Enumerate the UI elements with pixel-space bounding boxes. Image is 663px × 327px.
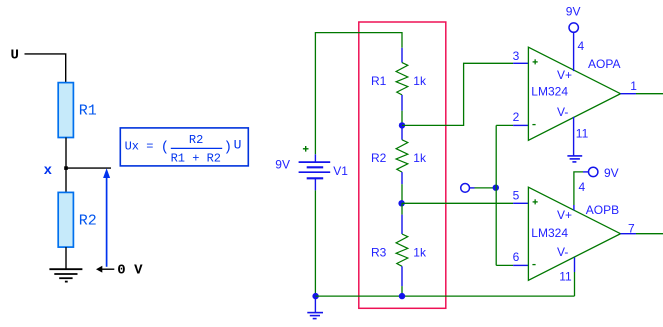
supply terminal 9V (AOPA) (569, 23, 578, 32)
svg-text:x: x (44, 163, 53, 179)
ground (battery) (307, 296, 323, 319)
svg-text:R2: R2 (79, 213, 97, 230)
minus sign input (532, 264, 535, 266)
wire to pin 6 (496, 264, 513, 266)
svg-text:7: 7 (628, 221, 635, 235)
svg-text:R1: R1 (371, 74, 387, 88)
svg-text:R1: R1 (79, 103, 97, 120)
node U label (11, 48, 19, 64)
junction R3 bottom (399, 293, 405, 299)
svg-text:1k: 1k (413, 246, 427, 260)
svg-text:9V: 9V (604, 166, 619, 180)
0 V reference arrow (96, 262, 143, 278)
svg-text:U: U (11, 48, 19, 64)
svg-text:9V: 9V (275, 157, 290, 171)
ground (earth) left (49, 269, 82, 281)
svg-text:V1: V1 (333, 164, 348, 178)
svg-text:3: 3 (513, 49, 520, 63)
wire junction R1/R2 to pin 3 (402, 63, 513, 125)
input terminal (open circle) (461, 184, 470, 193)
resistor R2 (1k) (371, 125, 427, 203)
svg-text:V-: V- (557, 105, 568, 119)
svg-text:5: 5 (513, 189, 520, 203)
svg-text:V+: V+ (557, 208, 572, 222)
svg-text:1k: 1k (413, 151, 427, 165)
wire from node x to the right (66, 167, 111, 169)
output pin 7 (621, 233, 637, 235)
wire R1 bottom to R2 top (65, 138, 67, 193)
svg-text:1: 1 (630, 79, 637, 93)
plus sign input (533, 59, 538, 64)
node x (64, 166, 68, 170)
svg-text:R2: R2 (371, 151, 387, 165)
svg-text:AOPB: AOPB (586, 203, 619, 217)
svg-text:R2: R2 (189, 133, 203, 147)
junction R2/R3 (398, 200, 404, 206)
minus sign input (532, 124, 535, 126)
svg-text:Ux =: Ux = (125, 139, 154, 153)
svg-text:6: 6 (513, 250, 520, 264)
wire junction R2/R3 to pin 5 (402, 202, 513, 204)
svg-text:2: 2 (513, 110, 520, 124)
wire U to R1 top (25, 54, 66, 83)
node pin2/pin6 tie (493, 185, 499, 191)
svg-text:R1 + R2: R1 + R2 (171, 151, 221, 165)
svg-text:11: 11 (576, 126, 589, 140)
selection box (pink) (359, 22, 446, 308)
svg-text:4: 4 (579, 180, 586, 194)
V+ pin 4 lead up to 9V terminal (573, 205, 575, 210)
svg-text:LM324: LM324 (531, 85, 568, 99)
resistor R3 (1k) (371, 203, 427, 296)
svg-text:9V: 9V (566, 4, 581, 18)
V+ pin 4 lead (573, 32, 575, 71)
output pin 1 (621, 93, 637, 95)
junction R1/R2 (399, 122, 405, 128)
supply terminal 9V (AOPB) (589, 167, 598, 176)
junction battery bottom (312, 293, 318, 299)
battery plus sign (303, 146, 309, 152)
battery V1 (299, 154, 331, 190)
op-amp U1 AOPA triangle (528, 47, 620, 140)
svg-text:AOPA: AOPA (588, 57, 620, 71)
wire pin 11 to bottom rail (574, 272, 576, 296)
svg-text:U: U (234, 138, 242, 153)
svg-text:(: ( (161, 140, 169, 156)
resistor R1 (box style) (58, 83, 73, 138)
V- pin 11 lead (573, 117, 575, 156)
resistor R1 (1k) (371, 48, 427, 126)
V- pin 11 lead (574, 257, 576, 272)
svg-text:LM324: LM324 (531, 226, 568, 240)
svg-text:4: 4 (578, 39, 585, 53)
svg-text:V-: V- (557, 245, 568, 259)
svg-text:R3: R3 (371, 246, 387, 260)
voltage arrow Ux (blue, pointing up to node x) (103, 168, 110, 266)
ground (AOPA V-) (567, 156, 582, 162)
formula box Ux = (R2/(R1+R2))U (120, 128, 248, 166)
svg-text:0 V: 0 V (117, 262, 143, 278)
op-amp U2 AOPB triangle (528, 187, 620, 280)
svg-text:V+: V+ (557, 68, 572, 82)
bottom rail wire (316, 295, 575, 297)
wire battery bottom (314, 190, 316, 296)
svg-text:1k: 1k (413, 74, 427, 88)
svg-text:11: 11 (559, 269, 572, 283)
plus sign input (533, 199, 538, 204)
wire to pin 2 (496, 124, 513, 126)
wire R2 bottom to ground (65, 247, 67, 269)
vertical tie wire pin2 to pin6 (495, 125, 497, 265)
wire top rail battery to R1 (315, 33, 402, 155)
svg-text:): ) (224, 140, 232, 156)
resistor R2 (box style) (58, 192, 73, 247)
